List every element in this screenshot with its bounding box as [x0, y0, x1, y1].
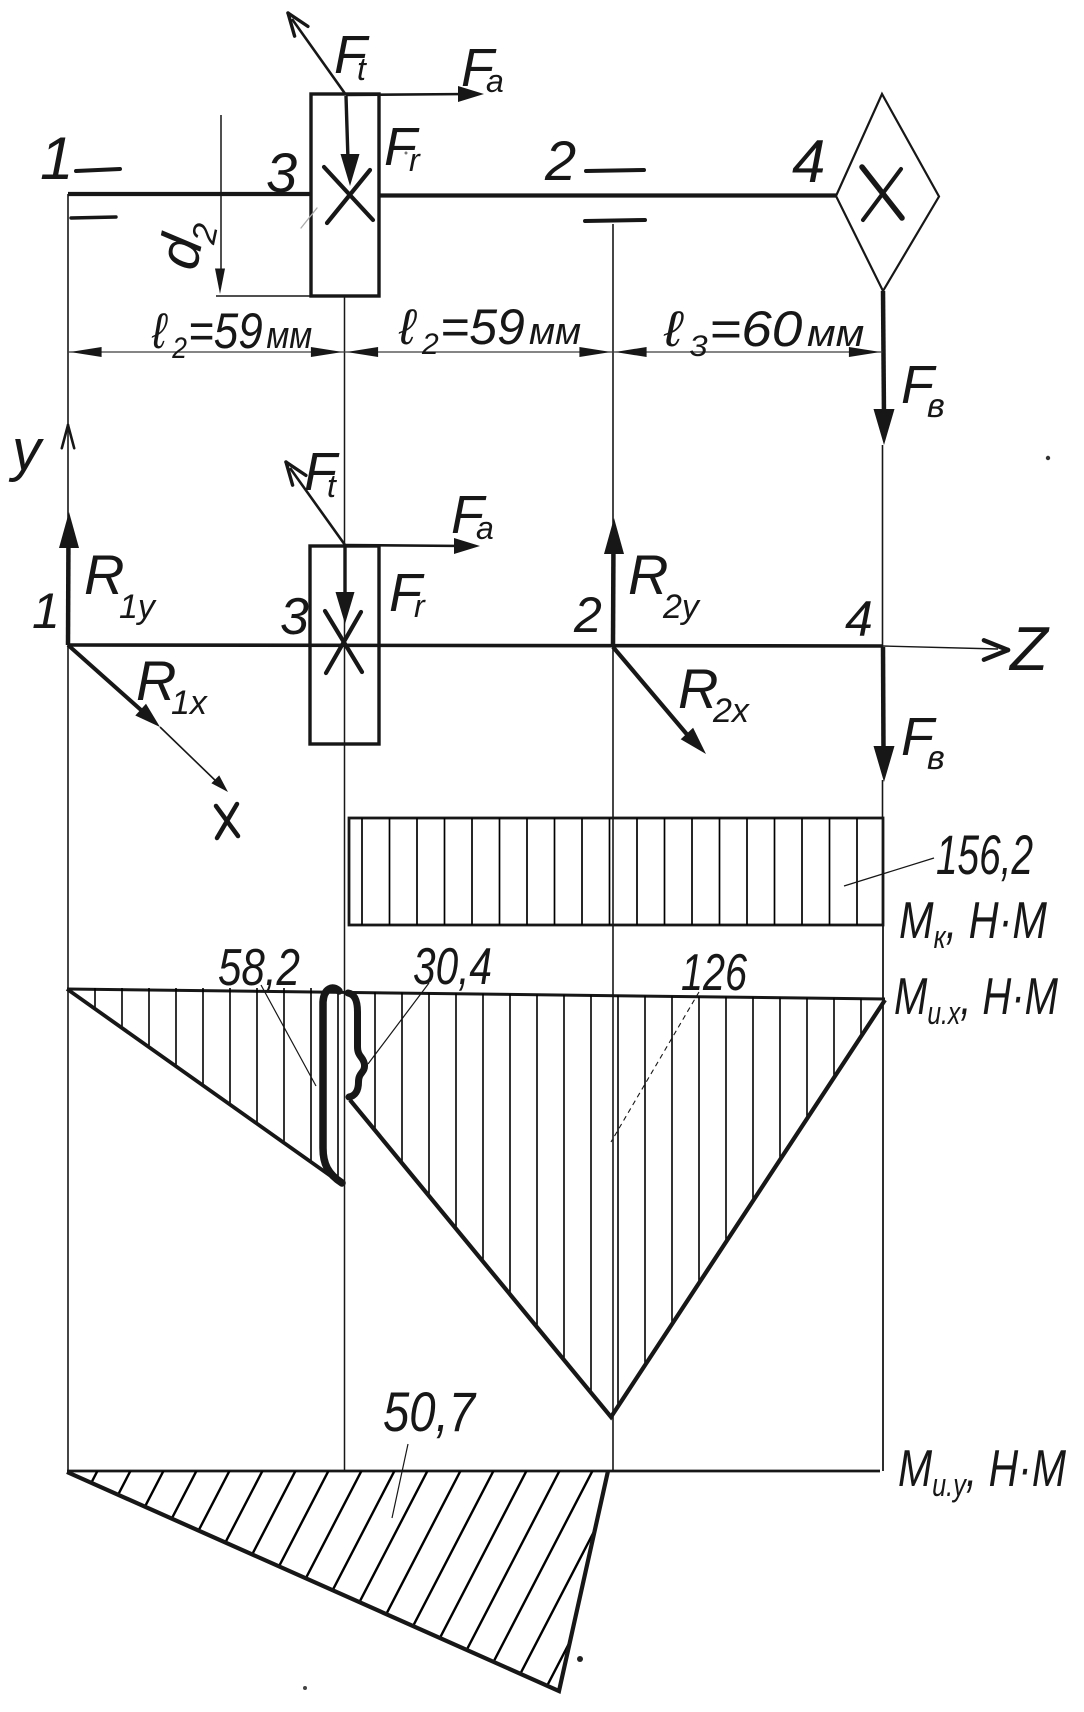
svg-text:t: t: [327, 468, 337, 504]
svg-text:4: 4: [845, 591, 873, 647]
label 2 (middle): [573, 587, 602, 643]
svg-text:r: r: [414, 588, 426, 624]
dimension line: [68, 351, 883, 353]
coupling 4 (diamond): [836, 94, 939, 291]
bearing support 2: [585, 170, 645, 221]
dimension label l2=59mm (middle): [398, 299, 581, 361]
svg-text:2: 2: [544, 129, 576, 192]
Mi.x left triangle hypotenuse: [67, 989, 342, 1184]
gear 3 (top): [311, 94, 379, 296]
svg-text:=59: =59: [440, 299, 525, 355]
label 4 (middle): [845, 591, 873, 647]
svg-text:30,4: 30,4: [413, 938, 492, 996]
svg-text:1: 1: [40, 125, 73, 192]
svg-text:1: 1: [32, 583, 60, 639]
reaction R2x: [613, 647, 750, 754]
force Fa (middle): [345, 485, 494, 554]
svg-text:Mи.у, H·M: Mи.у, H·M: [898, 1440, 1067, 1503]
svg-text:y: y: [8, 418, 44, 483]
dimension arrow at 1: [70, 347, 102, 357]
coupling 4 cross: [862, 167, 902, 220]
axis label Mi.y: [898, 1440, 1067, 1503]
Mi.y triangle hatching: [0, 1466, 727, 1707]
label 1 (middle): [32, 583, 60, 639]
svg-text:Mи.х, H·M: Mи.х, H·M: [894, 968, 1059, 1031]
value 58,2 with leader: [218, 939, 316, 1086]
force Ft (middle): [286, 442, 345, 545]
torque diagram Mk hatching: [362, 816, 857, 927]
svg-text:ℓ: ℓ: [398, 299, 417, 355]
reaction R1x and x axis direction: [68, 645, 228, 792]
svg-text:мм: мм: [266, 314, 312, 356]
svg-text:в: в: [927, 739, 945, 777]
svg-text:2y: 2y: [662, 588, 701, 626]
svg-text:Z: Z: [1008, 615, 1050, 684]
Mi.x second triangle edges: [350, 1000, 885, 1417]
dimension d2: [145, 115, 311, 296]
svg-text:3: 3: [689, 328, 708, 362]
svg-text:в: в: [927, 387, 945, 425]
Mi.y triangle edges: [67, 1471, 608, 1691]
force FB (middle): [874, 647, 945, 782]
svg-text:Mк, H·M: Mк, H·M: [899, 892, 1048, 955]
label 3 (top): [266, 141, 297, 204]
svg-text:=60: =60: [709, 301, 802, 357]
svg-text:ℓ: ℓ: [151, 302, 168, 358]
Mi.x right region hatching: [375, 990, 861, 1420]
label 3 (middle): [280, 588, 309, 646]
dimension arrows at 2: [579, 347, 646, 357]
svg-text:58,2: 58,2: [218, 939, 300, 997]
force FB (top): [874, 291, 945, 445]
force Fr (top): [341, 96, 422, 186]
svg-text:3: 3: [280, 588, 309, 646]
svg-text:t: t: [357, 51, 367, 87]
svg-text:126: 126: [681, 944, 747, 1002]
Mi.x step (jump) stroke: [323, 988, 365, 1183]
gear 3 (middle): [310, 546, 379, 744]
svg-text:4: 4: [792, 128, 825, 195]
gear 3 (top) cross: [301, 167, 373, 228]
label 4 (top): [792, 128, 825, 195]
svg-text:2x: 2x: [712, 692, 750, 730]
Mi.x left triangle hatching: [95, 986, 338, 1190]
construction line through point 2: [612, 224, 614, 1471]
z axis: [68, 615, 1050, 684]
svg-text:r: r: [409, 142, 421, 178]
svg-text:a: a: [476, 510, 494, 546]
svg-text:1x: 1x: [171, 684, 208, 722]
reaction R1y: [59, 512, 157, 645]
label 2 (top): [544, 129, 576, 192]
dimension label l2=59mm (left): [151, 302, 312, 364]
axis label Mk: [899, 892, 1048, 955]
reaction R2y: [604, 518, 701, 646]
dimension label l3=60mm: [663, 301, 864, 362]
svg-text:ℓ: ℓ: [663, 301, 684, 357]
svg-text:156,2: 156,2: [936, 823, 1033, 886]
svg-text:2: 2: [171, 330, 187, 364]
torque diagram Mk outline: [349, 818, 883, 925]
svg-text:2: 2: [573, 587, 602, 643]
svg-text:3: 3: [266, 141, 297, 204]
svg-text:мм: мм: [807, 313, 864, 355]
label 1 (top): [40, 125, 73, 192]
value 126 with leader: [611, 944, 747, 1142]
bending diagram Mi.x baseline: [67, 989, 885, 999]
svg-text:1y: 1y: [119, 588, 157, 626]
construction line through point 3: [344, 296, 346, 1471]
axis label Mi.x: [894, 968, 1059, 1031]
value 156,2 with leader: [844, 823, 1033, 886]
bearing support 1: [71, 169, 120, 218]
force Fa (top): [346, 38, 504, 102]
svg-text:=59: =59: [188, 302, 263, 358]
force Fr (middle): [336, 546, 427, 624]
dimension arrows at 3: [311, 347, 378, 357]
construction line through point 4: [882, 445, 885, 1471]
svg-text:2: 2: [421, 328, 439, 361]
svg-text:a: a: [486, 63, 504, 99]
construction line through point 1: [67, 194, 69, 1471]
x axis label: [216, 804, 238, 838]
dimension arrow at 4: [849, 347, 881, 357]
paper specks: [303, 152, 1050, 1691]
svg-text:50,7: 50,7: [383, 1380, 477, 1443]
value 30,4 with leader: [368, 938, 492, 1064]
bending diagram Mi.y baseline: [67, 1470, 880, 1473]
svg-text:мм: мм: [529, 311, 581, 353]
gear 3 (middle) cross: [325, 611, 362, 673]
shaft (top schematic): [68, 194, 836, 196]
value 50,7 with leader: [383, 1380, 477, 1518]
y axis: [8, 418, 74, 483]
force Ft (top): [288, 13, 370, 95]
